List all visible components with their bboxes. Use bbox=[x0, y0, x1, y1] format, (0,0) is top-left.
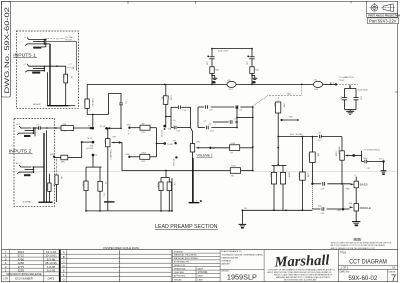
wire V1B grid tag row bbox=[82, 141, 93, 143]
wire treble pot top drop bbox=[341, 137, 343, 151]
wire plate node horizontal bbox=[87, 114, 108, 116]
resistor R4b 820R bbox=[157, 182, 163, 211]
jack J4 marker blob bbox=[24, 174, 30, 176]
INPUTS 2 dashed enclosure bbox=[14, 118, 55, 206]
wire B+ bus horizontal bbox=[87, 83, 227, 85]
resistor R30 bbox=[210, 67, 220, 85]
tag dots near VR2 feed bbox=[174, 142, 176, 144]
wire B+ drop to V1A plate bbox=[86, 84, 88, 99]
svg-text:Part 59X3-22V: Part 59X3-22V bbox=[369, 19, 397, 24]
drawn/checked stack section bbox=[172, 250, 220, 282]
wire jack J1 to bus bbox=[46, 43, 50, 45]
resistor Rm 1M channel2 mid vertical bbox=[55, 158, 62, 202]
svg-text:ISSUED: ISSUED bbox=[174, 280, 182, 282]
junction dots on J3 row bbox=[46, 127, 48, 129]
ground drop right bus bbox=[239, 210, 247, 228]
wire cap pair bottom join bbox=[345, 109, 357, 111]
svg-text:D: D bbox=[63, 264, 65, 268]
wire B+ drop to V2A plate resistor bbox=[165, 84, 167, 95]
wire treble feed row bbox=[278, 136, 318, 138]
svg-text:V2A: V2A bbox=[290, 133, 294, 136]
svg-text:F: F bbox=[63, 273, 65, 277]
svg-text:TP-41: TP-41 bbox=[339, 80, 345, 82]
node V2B tag wire bbox=[281, 117, 299, 122]
wire coupling loop for C1 bbox=[109, 94, 122, 115]
svg-text:CHECKED: CHECKED bbox=[174, 272, 185, 274]
svg-text:EXTERNAL FIN: EXTERNAL FIN bbox=[174, 261, 189, 264]
wire tag to cathode bus bbox=[92, 155, 94, 167]
projection text bar bbox=[367, 14, 398, 18]
svg-text:FIRST ANGLE PROJECTION: FIRST ANGLE PROJECTION bbox=[368, 15, 400, 18]
svg-text:V2A: V2A bbox=[168, 127, 172, 130]
revision table (left) bbox=[2, 250, 60, 282]
svg-text:IN ACCORDANCE TO: IN ACCORDANCE TO bbox=[222, 250, 242, 253]
svg-text:LEAD PREAMP SECTION: LEAD PREAMP SECTION bbox=[155, 224, 218, 230]
svg-text:820R: 820R bbox=[82, 182, 84, 187]
svg-text:MANUFACTURING RELEASE: MANUFACTURING RELEASE bbox=[6, 272, 42, 276]
svg-text:AND IS PASSED ON VIA THE FEEDB: AND IS PASSED ON VIA THE FEEDBACK LOOP. bbox=[331, 247, 376, 250]
resistor R13 100K vertical (V2B plate) bbox=[297, 137, 308, 211]
svg-text:1 OF 1: 1 OF 1 bbox=[341, 266, 349, 270]
jack J3 marker blob bbox=[24, 135, 30, 137]
svg-text:TO L8: TO L8 bbox=[100, 126, 106, 128]
svg-text:LTR: LTR bbox=[3, 278, 8, 281]
node V1B grid tag dots bbox=[81, 141, 83, 143]
svg-text:AS IT IS POSSIBLE TO PICK UP N: AS IT IS POSSIBLE TO PICK UP NOISE FROM … bbox=[331, 244, 386, 247]
resistor R4 1M (input 2) vertical bbox=[48, 174, 55, 203]
ground bus right bbox=[242, 209, 312, 211]
jack J3 junction dots bbox=[33, 127, 36, 134]
jack J2 marker blob bbox=[32, 72, 40, 74]
svg-text:NOTE:: NOTE: bbox=[354, 237, 362, 241]
capacitor C33 bbox=[340, 96, 348, 110]
svg-text:100K: 100K bbox=[282, 103, 284, 108]
svg-text:+: + bbox=[119, 268, 121, 272]
wire mid row with C5 bbox=[213, 121, 237, 123]
svg-text:TO V1B: TO V1B bbox=[172, 158, 174, 166]
junction dot middle row bbox=[342, 208, 345, 211]
svg-text:+: + bbox=[119, 278, 121, 282]
capacitor C17 bbox=[206, 105, 214, 111]
wire from V2B cathode tag down bbox=[171, 178, 173, 211]
svg-text:APPROVED: APPROVED bbox=[174, 275, 186, 278]
wire from J2 sleeve down bbox=[46, 72, 48, 106]
node GN1 tag for V2A grid path bbox=[128, 127, 130, 129]
svg-text:TO V2A: TO V2A bbox=[65, 36, 73, 39]
svg-text:17/10/01: 17/10/01 bbox=[198, 270, 209, 274]
svg-text:50uF+50uF: 50uF+50uF bbox=[218, 51, 229, 53]
svg-text:50uF+50uF: 50uF+50uF bbox=[358, 90, 369, 92]
resistor R31 bbox=[250, 67, 260, 85]
junction dot bbox=[156, 143, 158, 145]
node SH1 on channel-2 low path bbox=[53, 156, 55, 158]
svg-text:SYSTEM: SYSTEM bbox=[174, 251, 183, 253]
svg-text:+: + bbox=[119, 264, 121, 268]
scan crease bbox=[11, 170, 396, 172]
node V2A plate tag dots bbox=[163, 125, 166, 128]
junction dot plate node bbox=[92, 114, 94, 116]
svg-text:470K: 470K bbox=[297, 173, 299, 178]
ground bus bar INPUTS2 bbox=[38, 201, 52, 203]
resistor R7 470K mixer 1 bbox=[212, 143, 253, 155]
resistor R6 68K (grid stopper ch2 low) bbox=[54, 155, 82, 163]
wire 50uF top link bbox=[212, 48, 252, 50]
INPUTS 1 label bbox=[13, 52, 37, 57]
svg-text:+: + bbox=[119, 255, 121, 259]
svg-text:ECC83: ECC83 bbox=[86, 148, 93, 150]
wire bus INPUTS2 verticals bbox=[43, 133, 45, 202]
capacitor C4 bbox=[236, 105, 243, 111]
resistor R22 470K bbox=[131, 153, 157, 163]
reservoir cap pair C33/C34 bbox=[345, 84, 357, 97]
svg-text:SURFACE: SURFACE bbox=[222, 260, 232, 263]
jack J4 junction dots bbox=[33, 166, 35, 173]
junction dot on bus bbox=[56, 105, 58, 107]
capacitor C15 bbox=[179, 106, 187, 112]
svg-text:TO B2: TO B2 bbox=[167, 144, 174, 146]
svg-text:100K: 100K bbox=[170, 95, 172, 100]
capacitor C20 50p bbox=[318, 206, 325, 215]
svg-text:CCT DIAGRAM: CCT DIAGRAM bbox=[349, 258, 387, 265]
thick divider bar bbox=[59, 250, 61, 282]
svg-text:BRIGHT: BRIGHT bbox=[33, 104, 41, 106]
svg-text:MATERIAL THICKNESS: MATERIAL THICKNESS bbox=[174, 254, 197, 257]
svg-text:DATE: DATE bbox=[198, 275, 204, 278]
node GN2 tag bbox=[128, 156, 130, 158]
VR2 ground bar bbox=[189, 202, 200, 204]
svg-text:500K: 500K bbox=[335, 151, 337, 156]
dotted link to reservoir caps bbox=[338, 83, 359, 85]
svg-text:ECC83: ECC83 bbox=[160, 131, 162, 138]
svg-text:10H: 10H bbox=[314, 89, 318, 91]
first angle projection box (top right) bbox=[367, 1, 400, 23]
projection cone symbol bbox=[383, 4, 393, 12]
inductor L30 choke in B+ line bbox=[227, 80, 236, 91]
resistor R5 68K (grid stopper ch2) bbox=[61, 124, 91, 132]
svg-text:+: + bbox=[119, 259, 121, 263]
node V1A tag dots row bbox=[105, 127, 121, 129]
svg-text:+TP: +TP bbox=[317, 133, 321, 135]
wire V1A grid drop to tag bbox=[92, 115, 94, 128]
svg-text:+: + bbox=[119, 273, 121, 277]
wire jack J2 row to node L1 bbox=[44, 65, 65, 67]
svg-text:BASS: BASS bbox=[360, 183, 368, 187]
capacitor C7 treble bbox=[317, 133, 342, 143]
wire bass row bbox=[312, 183, 350, 185]
wire VR1 ground stem to bus bbox=[107, 202, 109, 211]
svg-text:1M: 1M bbox=[104, 140, 106, 143]
INPUTS 1 dashed enclosure bbox=[17, 31, 79, 109]
svg-text:+: + bbox=[119, 250, 121, 254]
svg-text:Marshall: Marshall bbox=[273, 253, 329, 271]
NOTE text block bbox=[331, 237, 392, 250]
svg-text:NORMAL: NORMAL bbox=[23, 201, 32, 204]
wire up to V1B grid tag bbox=[81, 142, 83, 158]
top line of title block bbox=[2, 249, 398, 251]
junction dot plate node V2A bbox=[165, 116, 167, 118]
svg-text:V1A: V1A bbox=[90, 144, 94, 147]
potentiometer VR1 volume 2 bbox=[104, 128, 121, 202]
big ground bar center bbox=[189, 201, 202, 203]
svg-text:TO DI MIX (PIN 1): TO DI MIX (PIN 1) bbox=[364, 150, 381, 152]
svg-text:MARSHALL AMPLIFICATION PLC, DE: MARSHALL AMPLIFICATION PLC, DENBIGH ROAD… bbox=[276, 276, 331, 279]
svg-text:1M: 1M bbox=[188, 145, 190, 148]
svg-text:1M: 1M bbox=[142, 123, 145, 125]
resistor R2 820R bbox=[82, 181, 89, 211]
svg-text:7: 7 bbox=[391, 272, 396, 283]
svg-text:TREBLE: TREBLE bbox=[338, 146, 340, 154]
svg-text:1M: 1M bbox=[53, 184, 55, 187]
svg-text:1MB: 1MB bbox=[345, 189, 350, 191]
ground of C21 bbox=[381, 162, 387, 176]
svg-text:1M: 1M bbox=[70, 76, 72, 79]
node H1 with dotted link to V2A bbox=[47, 36, 73, 42]
dotted screen link up to B+ node bbox=[253, 84, 302, 106]
svg-text:E: E bbox=[63, 268, 65, 272]
capacitor C5 bbox=[230, 119, 237, 124]
wire right mixing column x237 bbox=[236, 107, 238, 128]
capacitor C31 electrolytic bbox=[246, 49, 255, 67]
capacitor C18 bass bbox=[321, 182, 351, 191]
capacitor C16 bbox=[174, 126, 181, 133]
svg-text:TO V1A: TO V1A bbox=[67, 67, 75, 70]
ground bus left bbox=[86, 210, 172, 212]
resistor R12 slope 33K bbox=[307, 137, 318, 184]
svg-text:ECO NUMBER: ECO NUMBER bbox=[15, 277, 33, 281]
dotted feed down to R11 bbox=[277, 96, 279, 103]
LEAD PREAMP SECTION label bbox=[155, 224, 218, 230]
tolerance / model section bbox=[222, 250, 264, 272]
potentiometer VR2 volume 1 bbox=[188, 128, 216, 203]
node V2A grid tag dot bbox=[164, 142, 167, 145]
capacitor C2 (bright) on J3 wire bbox=[35, 125, 61, 130]
wire channel link J1 to J2 along box right bbox=[46, 42, 77, 71]
svg-text:470K: 470K bbox=[231, 166, 236, 168]
cathode pair V1B: resistor + cap to ground bbox=[161, 171, 169, 183]
node Pin4 dot bbox=[382, 160, 384, 162]
svg-text:TO CAPACITOR: TO CAPACITOR bbox=[339, 76, 354, 79]
capacitor C6 electrolytic bbox=[167, 182, 175, 211]
svg-text:320uF: 320uF bbox=[288, 172, 290, 178]
jack J1 marker blob bbox=[33, 47, 41, 49]
ground of tone stack column bbox=[352, 222, 360, 227]
jack J1 (input 1 high) bbox=[25, 38, 46, 47]
resistor R8 100K plate V2A bbox=[161, 95, 172, 127]
projection circle symbol bbox=[371, 5, 378, 12]
svg-text:A: A bbox=[63, 250, 65, 254]
svg-text:100K 2W: 100K 2W bbox=[91, 98, 93, 106]
svg-text:DATE: DATE bbox=[48, 277, 55, 281]
inductor L31 choke in B+ line bbox=[313, 80, 322, 91]
junction dots on B+ bus bbox=[164, 84, 332, 86]
junction dot on mixer2 run bbox=[165, 170, 167, 172]
svg-text:+12 V: +12 V bbox=[228, 89, 234, 91]
wire bus INPUTS1 main vertical bbox=[49, 44, 51, 106]
svg-text:DRAWN AJL: DRAWN AJL bbox=[174, 267, 187, 270]
capacitor C9 320uF cathode V2A bbox=[280, 172, 289, 211]
capacitor C21 150p bbox=[363, 158, 384, 170]
svg-text:AND IT MUST NOT BE COPIED REPR: AND IT MUST NOT BE COPIED REPRODUCED OR … bbox=[268, 271, 333, 274]
node TP41 dot bbox=[90, 127, 92, 129]
potentiometer VR5 BASS bbox=[350, 175, 367, 204]
cathode V1A pair left bbox=[86, 167, 102, 181]
svg-text:MIDDLE: MIDDLE bbox=[360, 206, 371, 210]
VOLUME 1 label bbox=[197, 153, 213, 157]
resistor R11 plate V2 bbox=[273, 102, 284, 165]
wire middle row with C20 bbox=[312, 184, 342, 209]
wire V2A grid junction vertical bbox=[156, 128, 158, 157]
svg-text:UNSPECIFIED HOLE DATA: UNSPECIFIED HOLE DATA bbox=[103, 246, 139, 250]
potentiometer VR4 TREBLE bbox=[335, 146, 356, 183]
svg-text:VOLUME 1: VOLUME 1 bbox=[197, 153, 213, 157]
resistor R3 100K plate V1A bbox=[83, 98, 93, 114]
svg-text:TB 41: TB 41 bbox=[87, 138, 93, 140]
capacitor C34 bbox=[353, 96, 361, 110]
svg-text:WHOLE TO ANY THIRD PARTY WITHO: WHOLE TO ANY THIRD PARTY WITHOUT WRITTEN… bbox=[274, 274, 333, 277]
svg-text:ANGLES: ANGLES bbox=[222, 263, 231, 266]
resistor R1 1M (input 1) bbox=[62, 66, 72, 106]
ground reservoir caps bbox=[346, 110, 354, 115]
svg-text:(+.L): (+.L) bbox=[127, 131, 129, 136]
jack J1 tip/ring junction dots bbox=[43, 39, 46, 45]
wire lower mixing row with C18 bbox=[198, 127, 237, 129]
VR1 ground bar bbox=[104, 201, 115, 203]
ground of C30 branch bbox=[212, 75, 217, 84]
svg-text:INPUTS 1: INPUTS 1 bbox=[13, 52, 36, 57]
junction dot bass row bbox=[341, 183, 343, 185]
node B+ end dot bbox=[335, 83, 337, 85]
svg-text:V2B: V2B bbox=[289, 117, 293, 119]
svg-text:3239: 3239 bbox=[18, 269, 25, 273]
wire loop right side down to tag row bbox=[120, 115, 122, 129]
svg-text:MATERIAL SPEC/FINISH: MATERIAL SPEC/FINISH bbox=[174, 257, 198, 260]
svg-text:1M: 1M bbox=[60, 176, 62, 179]
svg-text:COPYRIGHT OF THIS DRAWING IS V: COPYRIGHT OF THIS DRAWING IS VESTED IN M… bbox=[268, 268, 336, 271]
svg-text:C: C bbox=[63, 259, 65, 263]
svg-text:470K: 470K bbox=[141, 153, 146, 155]
jack J2 (input 1 low) bbox=[25, 64, 44, 72]
wire VR1 wiper to mix resistor run bbox=[120, 143, 231, 171]
junction dot slope/bass bbox=[311, 183, 313, 185]
svg-text:DWG.No. 59X-60-02: DWG.No. 59X-60-02 bbox=[4, 7, 11, 94]
ground of C31 branch bbox=[252, 75, 257, 84]
svg-text:A3: A3 bbox=[392, 266, 396, 270]
fold tick marks bbox=[128, 1, 398, 92]
wire right column x252.8 bbox=[252, 107, 254, 171]
svg-text:DRWG STD: DRWG STD bbox=[174, 265, 186, 267]
coupling box C15/C16 bbox=[171, 107, 191, 127]
junction dots on V2 column bbox=[277, 136, 279, 166]
svg-text:59X-60-02: 59X-60-02 bbox=[348, 275, 377, 282]
svg-text:VOLUME 2: VOLUME 2 bbox=[109, 150, 111, 161]
resistor R6b 470K mixer 2 bbox=[230, 166, 253, 178]
capacitor C18a bbox=[206, 126, 214, 133]
resistor R10 820R cathode V2A bbox=[269, 172, 276, 210]
wire to V2A grid tag bbox=[157, 143, 165, 145]
svg-text:DWG No: DWG No bbox=[340, 270, 350, 273]
capacitor C1 in loop right side bbox=[119, 102, 127, 105]
svg-text:TITLE: TITLE bbox=[340, 251, 347, 254]
INPUTS 2 label bbox=[9, 148, 33, 153]
svg-text:B: B bbox=[63, 255, 65, 259]
svg-text:SWITCH LINES SHOWN MUST BE WIR: SWITCH LINES SHOWN MUST BE WIRED AWAY FR… bbox=[331, 242, 392, 245]
svg-text:5-2-93: 5-2-93 bbox=[47, 269, 56, 273]
svg-text:DATE: DATE bbox=[198, 279, 204, 282]
cathode pair V2A bbox=[272, 165, 287, 173]
svg-text:820R: 820R bbox=[157, 183, 159, 188]
DWG number vertical label box bbox=[2, 1, 11, 97]
jack J3 (input 2 high) bbox=[17, 126, 35, 136]
jack J4 (input 2 low) bbox=[17, 165, 33, 174]
wire bass to middle link bbox=[342, 185, 344, 209]
svg-text:INPUTS 2: INPUTS 2 bbox=[9, 148, 32, 153]
svg-text:100K: 100K bbox=[307, 173, 309, 178]
capacitor C30 electrolytic bbox=[206, 49, 215, 67]
svg-text:TOLERANCE UNLESS OTHERWISE STA: TOLERANCE UNLESS OTHERWISE STATED bbox=[222, 253, 264, 256]
node V1B cathode tag dot bbox=[92, 154, 95, 157]
wire J4 row to bus bbox=[33, 166, 43, 168]
svg-text:MILTON KEYNES, MK1 1DQ ENGLAND: MILTON KEYNES, MK1 1DQ ENGLAND bbox=[284, 279, 317, 282]
wire plate to coupling box bbox=[166, 116, 171, 118]
wire mix node link bbox=[237, 117, 253, 119]
wire top mixing row bbox=[198, 107, 253, 128]
ground bar INPUTS2 common / VR2 bbox=[192, 158, 194, 203]
capacitor C3 electrolytic bbox=[98, 181, 106, 211]
svg-text:1959SLP: 1959SLP bbox=[227, 273, 257, 282]
potentiometer VR6 MIDDLE bbox=[343, 203, 371, 221]
jack J2 junction dots bbox=[43, 65, 57, 71]
resistor R23 1M bbox=[131, 123, 157, 133]
wire DI mix bracket bbox=[355, 151, 364, 162]
svg-text:DIMENSIONS MM: DIMENSIONS MM bbox=[222, 257, 239, 259]
svg-text:470K: 470K bbox=[230, 143, 235, 145]
ground bus bar INPUTS1 bbox=[47, 105, 68, 107]
